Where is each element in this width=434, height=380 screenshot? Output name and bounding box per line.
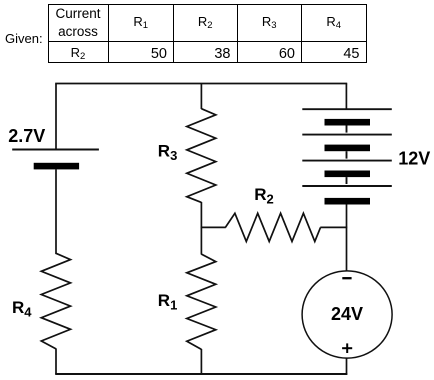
source 24V [302,271,392,358]
resistor R1 [187,254,216,349]
svg-text:R4: R4 [12,298,32,320]
svg-text:R2: R2 [254,185,274,207]
wire R2 right lead [320,226,347,228]
wire right branch top [345,84,347,110]
polarity plus mark [342,343,352,353]
wire top rail [55,83,347,85]
polarity minus mark [342,277,351,279]
given data table [48,4,367,63]
given label [5,31,43,46]
wire right branch bottom [346,358,348,375]
svg-text:R3: R3 [158,141,178,163]
wire left branch lower [55,349,57,375]
resistor R3 [187,109,216,203]
wire R2 left lead [201,226,226,228]
battery 12V [302,109,392,204]
resistor R4 [41,253,70,349]
wire middle branch center [200,202,202,255]
battery 2.7V [12,150,99,170]
svg-text:2.7V: 2.7V [8,126,45,146]
wire middle branch top [200,84,202,110]
resistor R2 [225,213,320,241]
svg-text:12V: 12V [398,149,430,169]
wire left branch upper [55,84,57,150]
wire right branch middle [346,204,348,271]
wire middle branch bottom [200,349,202,374]
svg-text:24V: 24V [331,304,363,324]
wire left branch middle [55,169,57,254]
svg-text:R1: R1 [158,291,178,313]
wire bottom rail [55,373,347,375]
